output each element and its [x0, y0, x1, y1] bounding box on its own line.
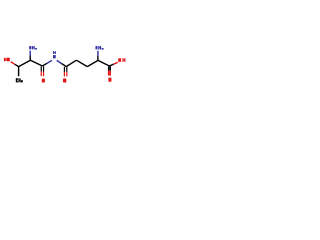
wire C3-C2 [19, 60, 31, 66]
wire C1g-OH red half [114, 62, 118, 64]
carbonyl O label 2 [63, 79, 66, 83]
amine label NH2 right (N block) [96, 46, 98, 50]
amide label H [53, 51, 54, 54]
double bond C1g=O line1 black [108, 66, 110, 70]
amine label NH2 right (subscript 2) [102, 48, 104, 50]
carbonyl O label 1 [42, 79, 45, 83]
wire N-C5 black half [62, 64, 67, 67]
wire C1g-OH black half [109, 64, 113, 66]
amine label NH2 left (N block) [29, 46, 31, 49]
acid label OH (O block) [118, 58, 121, 62]
double bond C5=O line1 red [63, 72, 65, 77]
double bond C1=O line2 black [43, 66, 45, 71]
double bond C5=O line2 red [66, 72, 68, 77]
methyl label CH3 (C glyph) [16, 78, 18, 82]
double bond C5=O line2 black [66, 67, 68, 72]
methyl label CH3 (H glyph) [18, 78, 19, 82]
wire C4-C3g [76, 60, 87, 66]
wire C2-N black half [29, 55, 31, 60]
wire C2-N blue half [29, 51, 31, 56]
double bond C1g=O line2 red [109, 71, 111, 76]
methyl label CH3 (subscript 3) [21, 80, 23, 82]
wire C3g-C2g [87, 60, 98, 66]
wire C2-C1 [30, 60, 42, 66]
amine label NH2 right (H glyph) [98, 46, 99, 50]
amine label NH2 left (subscript 2) [35, 48, 37, 50]
double bond C1g=O line1 red [108, 71, 110, 76]
wire C3-CH3 [18, 67, 20, 77]
wire C1-N blue half [47, 60, 52, 63]
wire C1-N black half [42, 63, 47, 66]
double bond C1=O line1 red [40, 72, 42, 77]
amide label N [53, 55, 56, 58]
wire C5-C4 [66, 60, 76, 66]
wire C2g-C1g [98, 60, 109, 66]
wire C2g-N blue half [97, 51, 99, 56]
acid label OH (H glyph) [122, 58, 123, 62]
wire O-C3 red half [11, 62, 15, 65]
carbonyl O label 3 [108, 78, 111, 82]
double bond C1=O line2 red [43, 72, 45, 77]
amine label NH2 left (H glyph) [32, 46, 33, 49]
double bond C1g=O line2 black [109, 66, 111, 70]
wire C2g-N black half [97, 56, 99, 61]
wire O-C3 black half [15, 64, 19, 66]
double bond C1=O line1 black [40, 66, 42, 71]
hydroxyl label HO (H glyph) [4, 58, 5, 61]
hydroxyl label HO (O block) [7, 58, 10, 62]
wire N-C5 blue half [57, 60, 62, 63]
double bond C5=O line1 black [63, 67, 65, 72]
